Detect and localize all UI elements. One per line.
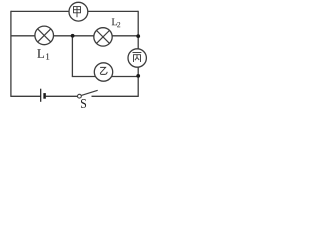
label S [81,99,86,108]
wire: top side of loop [11,10,138,12]
ammeter 乙: character glyph [100,67,107,74]
background [0,0,151,113]
label L2 [112,18,117,25]
wire: switch contact to bottom right corner [92,95,139,97]
wire: battery to switch pivot [46,95,78,97]
battery cell: long plate (left) [40,89,42,102]
node junction dot (middle wire to right wire) [136,34,140,38]
switch S: pivot circle [78,94,82,98]
label L2 subscript [117,22,120,27]
switch S: lever arm (open) [81,90,97,95]
lamp L2: cross [97,31,110,44]
wire: middle branch with lamps [11,35,138,37]
lamp L1: cross [38,29,51,42]
lamp L1: circle [35,26,54,45]
battery cell: short thick plate (right) [43,93,46,99]
ammeter 乙 (U2): circle [94,63,112,81]
lamp L2: circle [94,28,112,46]
ammeter 甲 (U1): circle [69,2,88,21]
ammeter 丙: character glyph [133,53,142,63]
wire: right side of loop [137,11,139,97]
node junction dot A (middle wire to 乙 branch) [71,34,75,38]
label L1 subscript [46,53,49,59]
label L1 [37,49,44,58]
node junction dot (乙 branch to right wire) [136,74,140,78]
ammeter 甲: character glyph [74,7,81,18]
wire: bottom left to battery [11,95,41,97]
wire: horizontal run to meter 乙 and right side [72,76,138,78]
ammeter 丙 (U3): circle [128,49,146,67]
wire: vertical drop to meter 乙 branch [71,36,73,77]
wire: left side of loop [10,11,12,97]
